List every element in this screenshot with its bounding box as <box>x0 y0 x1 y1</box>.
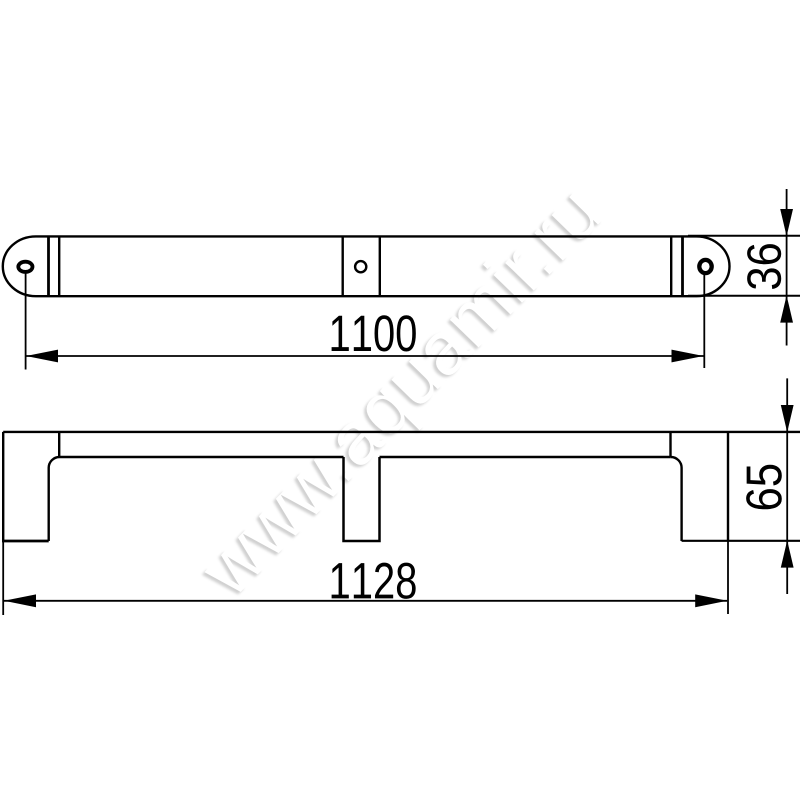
side view: left leg inner edge + fillet <box>49 457 60 541</box>
side view: right leg outer edge <box>727 432 729 541</box>
arrow top 65 <box>781 405 794 432</box>
dimension line 36 (vertical) <box>786 189 788 346</box>
label 36 <box>747 244 781 289</box>
dimension 36 <box>688 189 800 346</box>
side view: right leg inner edge + fillet <box>671 457 682 541</box>
extension line right (from right hole) <box>703 273 705 368</box>
extension line top (bar top edge to right border) <box>688 235 800 237</box>
label 65 <box>746 465 782 509</box>
side view: right joint line <box>669 432 671 457</box>
top view: bar outline (stadium) <box>3 236 730 296</box>
label 1100 <box>332 315 416 351</box>
arrow left 1100 <box>26 350 58 363</box>
side view: rail bottom right span <box>380 456 671 458</box>
dimension 1128 <box>3 541 728 615</box>
side view: rail bottom left span <box>60 456 344 458</box>
dimension 1100 <box>26 273 705 370</box>
extension line left <box>2 541 4 615</box>
extension line left (from left hole) <box>25 273 27 370</box>
label 1128 <box>332 563 416 599</box>
side view: right leg bottom + extension to border <box>682 540 800 542</box>
arrow bottom 36 <box>780 295 793 322</box>
top view: right cap joint line 2 <box>670 236 672 296</box>
dimension 65 <box>786 378 788 594</box>
top view: middle screw hole <box>355 261 366 272</box>
side view: left leg bottom <box>2 540 49 543</box>
side view: middle leg <box>344 457 380 541</box>
dimension line 1128 <box>4 600 727 602</box>
top view: right cap joint line 1 <box>681 236 684 296</box>
side view: left leg outer edge <box>2 432 4 541</box>
side view: left joint line <box>58 432 60 457</box>
extension line right <box>727 541 729 614</box>
arrow top 36 <box>780 209 793 236</box>
dimension line 65 (vertical) <box>786 378 788 594</box>
arrow right 1100 <box>672 350 704 363</box>
dimension line 1100 <box>26 355 704 357</box>
top view: left screw hole <box>18 262 32 272</box>
extension line bottom <box>688 295 800 297</box>
side view: rail top edge + extension to border <box>3 431 800 433</box>
top view: middle block right line <box>379 236 381 296</box>
top view: left cap joint line 2 <box>58 236 60 296</box>
top view: right screw hole <box>699 260 711 273</box>
top view: middle block left line <box>342 236 344 296</box>
arrow bottom 65 <box>781 540 794 567</box>
arrow right 1128 <box>695 594 727 607</box>
watermark www.aquamir.ru (embossed, behind drawing) <box>181 169 617 614</box>
top view: left cap joint line 1 <box>47 236 50 296</box>
arrow left 1128 <box>4 594 36 607</box>
